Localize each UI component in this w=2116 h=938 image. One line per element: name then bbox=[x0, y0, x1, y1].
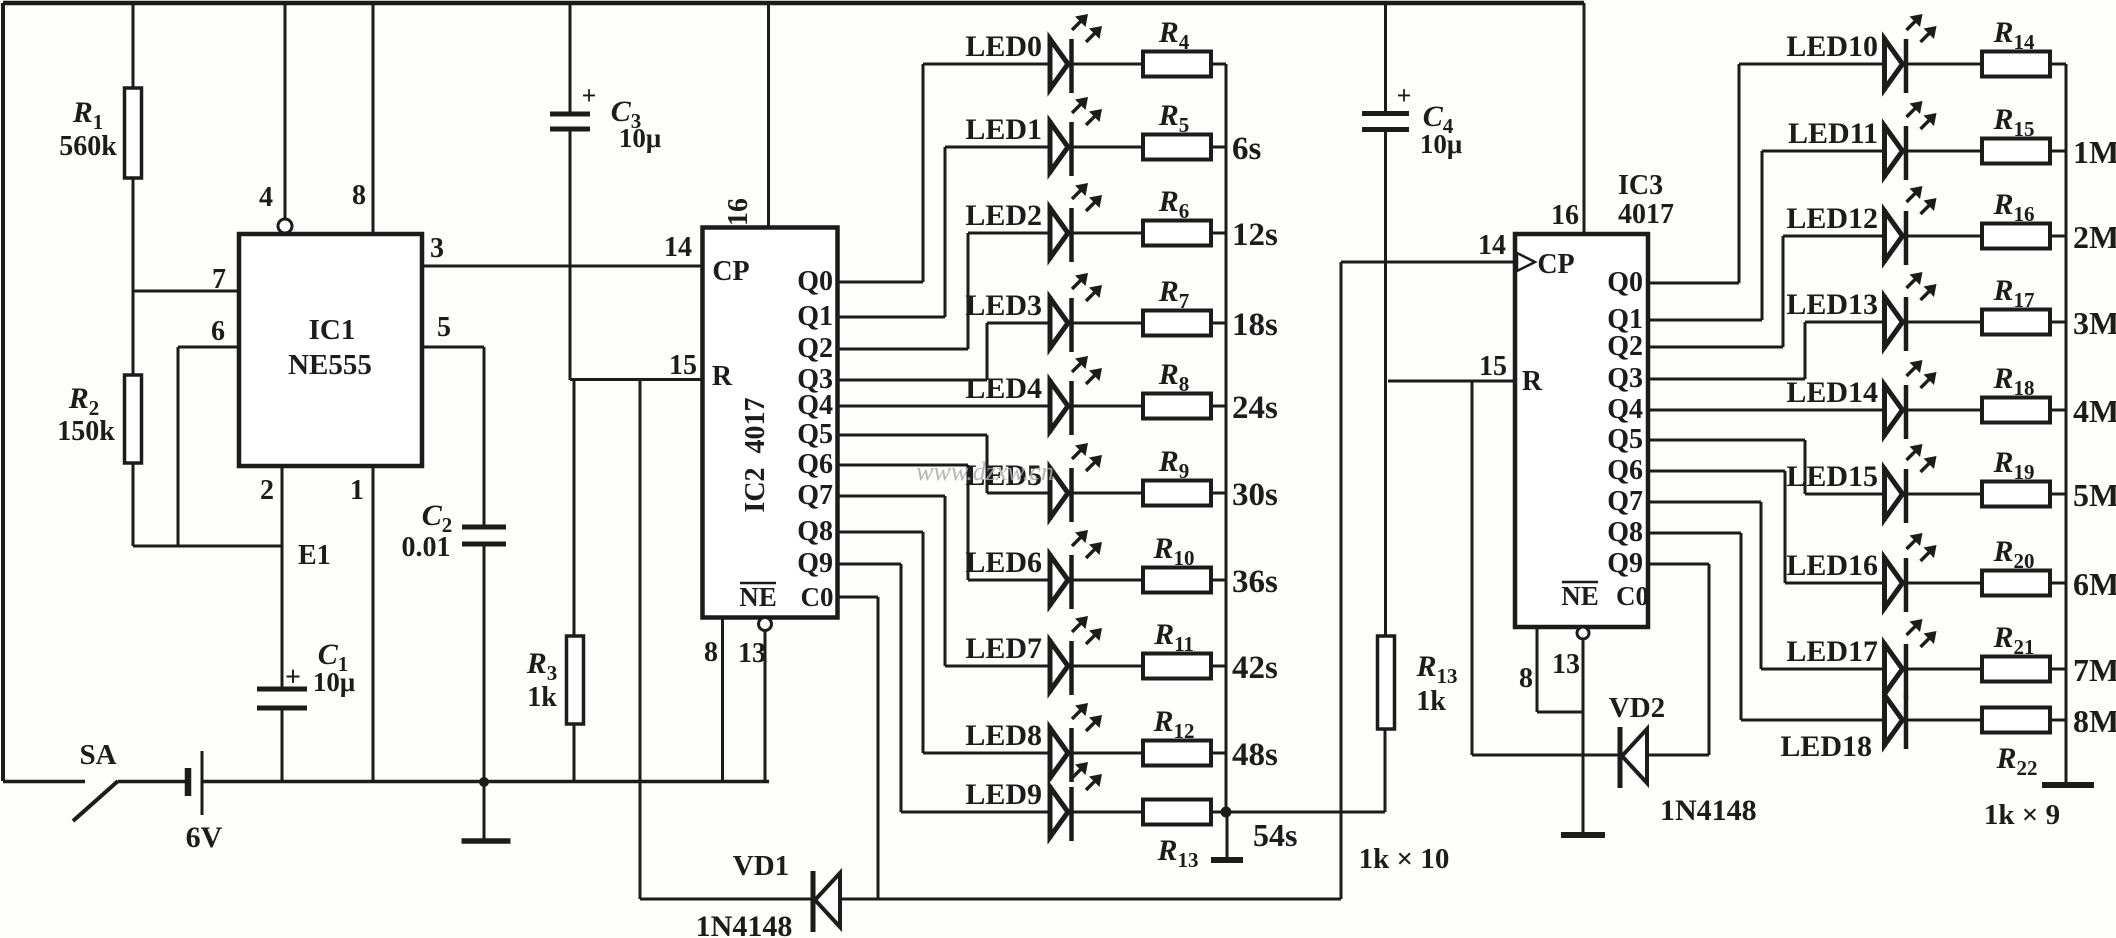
pin 1 of IC1 bbox=[372, 466, 375, 781]
LED3 bbox=[1048, 296, 1053, 350]
wire Q3 of IC2 to LED3 bbox=[838, 379, 988, 382]
svg-text:C0: C0 bbox=[801, 582, 834, 612]
pin 15 R of IC3 bbox=[1388, 380, 1515, 383]
svg-text:13: 13 bbox=[1552, 649, 1580, 680]
svg-text:6s: 6s bbox=[1232, 131, 1262, 167]
resistor R13b 1k bbox=[1378, 636, 1395, 729]
LED1 bbox=[1048, 120, 1053, 174]
capacitor C1 10u polarized bbox=[257, 687, 307, 692]
wire R17 to bus bbox=[2050, 321, 2066, 324]
resistor R9 bbox=[1143, 481, 1211, 506]
resistor R10 bbox=[1143, 568, 1211, 593]
LED11 bbox=[1882, 124, 1887, 178]
svg-text:6V: 6V bbox=[186, 821, 223, 854]
capacitor C2 0.01 bbox=[462, 525, 506, 530]
svg-text:54s: 54s bbox=[1253, 817, 1297, 853]
svg-text:SA: SA bbox=[79, 739, 116, 771]
resistor R3 1k bbox=[567, 636, 584, 724]
pin 8 of IC2 bbox=[721, 618, 724, 782]
svg-text:C0: C0 bbox=[1616, 581, 1649, 611]
LED16 bbox=[1882, 556, 1887, 610]
wire LED12 to R16 bbox=[1906, 235, 1982, 238]
svg-text:8: 8 bbox=[1519, 663, 1533, 694]
wire VD2 to Q9 of IC3 bbox=[1647, 754, 1709, 757]
LED5 bbox=[1048, 466, 1053, 520]
pin 13 of IC2 bbox=[764, 630, 767, 781]
wire IC3 R node down to VD2 bbox=[1471, 381, 1474, 755]
counter U3 IC3 4017 box bbox=[1515, 234, 1648, 627]
svg-text:14: 14 bbox=[1478, 230, 1506, 261]
svg-text:LED4: LED4 bbox=[965, 372, 1042, 405]
wire R6 to bus bbox=[1211, 232, 1226, 235]
svg-text:7: 7 bbox=[212, 264, 226, 295]
wire LED13 to R17 bbox=[1906, 321, 1982, 324]
svg-text:8: 8 bbox=[352, 180, 366, 211]
svg-text:VD1: VD1 bbox=[733, 850, 789, 882]
diode VD1 1N4148 bbox=[811, 871, 816, 932]
svg-text:15: 15 bbox=[669, 350, 697, 381]
svg-text:2M: 2M bbox=[2073, 219, 2116, 255]
resistor R11 bbox=[1143, 654, 1211, 679]
wire R9 to bus bbox=[1211, 492, 1226, 495]
LED7 bbox=[1048, 639, 1053, 693]
pin 13 circle of IC3 bbox=[1577, 627, 1589, 639]
svg-text:1M: 1M bbox=[2073, 134, 2116, 170]
svg-text:LED10: LED10 bbox=[1786, 30, 1878, 63]
LED8 bbox=[1048, 726, 1053, 780]
wire LED14 to R18 bbox=[1906, 409, 1982, 412]
resistor R21 bbox=[1982, 657, 2050, 682]
svg-text:0.01: 0.01 bbox=[402, 532, 451, 563]
resistor R14 bbox=[1982, 52, 2050, 77]
wire bottom ground rail bbox=[202, 780, 769, 784]
svg-text:8M: 8M bbox=[2073, 703, 2116, 739]
LED6 bbox=[1048, 553, 1053, 607]
wire R15 to bus bbox=[2050, 150, 2066, 153]
wire LED5 to R9 bbox=[1072, 492, 1144, 495]
svg-text:3M: 3M bbox=[2073, 305, 2116, 341]
LED15 bbox=[1882, 467, 1887, 521]
svg-text:Q7: Q7 bbox=[1607, 486, 1643, 517]
svg-text:Q3: Q3 bbox=[1607, 363, 1643, 394]
wire Q0 of IC2 to LED0 bbox=[838, 281, 924, 284]
svg-text:4M: 4M bbox=[2073, 393, 2116, 429]
svg-text:LED13: LED13 bbox=[1786, 288, 1878, 321]
switch SA bbox=[3, 780, 85, 784]
svg-text:1k × 10: 1k × 10 bbox=[1359, 843, 1450, 875]
wire Q7 of IC3 to LED17 bbox=[1648, 501, 1761, 504]
pin 13 circle of IC2 bbox=[759, 618, 772, 631]
resistor R8 bbox=[1143, 394, 1211, 419]
wire LED16 to R20 bbox=[1906, 582, 1982, 585]
wire R1 to R2 / node pin7 bbox=[132, 178, 135, 375]
svg-text:Q0: Q0 bbox=[797, 266, 833, 297]
pin 15 R of IC2 bbox=[570, 378, 702, 381]
svg-text:42s: 42s bbox=[1232, 650, 1278, 686]
svg-text:R: R bbox=[712, 361, 733, 392]
wire R14 to bus bbox=[2050, 63, 2066, 66]
resistor R6 bbox=[1143, 221, 1211, 246]
wire LED4 to R8 bbox=[1072, 405, 1144, 408]
resistor R22 bbox=[1982, 708, 2050, 733]
svg-text:Q1: Q1 bbox=[797, 301, 833, 332]
resistor R7 bbox=[1143, 311, 1211, 336]
svg-text:5M: 5M bbox=[2073, 477, 2116, 513]
wire Q2 of IC3 to LED12 bbox=[1648, 346, 1783, 349]
svg-text:NE: NE bbox=[739, 582, 777, 612]
diode VD2 1N4148 bbox=[1618, 727, 1623, 788]
wire LED7 to R11 bbox=[1072, 665, 1144, 668]
resistor R18 bbox=[1982, 398, 2050, 423]
wire R5 to bus bbox=[1211, 146, 1226, 149]
wire Q6 of IC3 to LED16 bbox=[1648, 470, 1785, 473]
wire Q8 of IC3 to LED18 bbox=[1648, 532, 1741, 535]
resistor R4 bbox=[1143, 52, 1211, 77]
svg-text:www.dzxw.cn: www.dzxw.cn bbox=[916, 457, 1054, 486]
ground symbol below 54s node bbox=[1226, 812, 1229, 858]
svg-text:30s: 30s bbox=[1232, 477, 1278, 513]
svg-text:NE555: NE555 bbox=[288, 349, 372, 381]
wire LED1 to R5 bbox=[1072, 146, 1144, 149]
pin 14 CP of IC3 bbox=[1341, 261, 1515, 264]
svg-text:Q2: Q2 bbox=[797, 333, 833, 364]
wire Q1 of IC3 to LED11 bbox=[1648, 319, 1762, 322]
wire Q2 of IC2 to LED2 bbox=[838, 348, 969, 351]
svg-text:LED7: LED7 bbox=[965, 632, 1042, 665]
wire LED18 to R22 bbox=[1906, 719, 1982, 722]
svg-text:Q5: Q5 bbox=[1607, 424, 1643, 455]
svg-text:1k: 1k bbox=[1416, 686, 1446, 717]
pin 6 of IC1 bbox=[178, 346, 239, 349]
svg-text:Q7: Q7 bbox=[797, 480, 833, 511]
svg-text:LED3: LED3 bbox=[965, 289, 1042, 322]
resistor R5 bbox=[1143, 135, 1211, 160]
wire LED8 to R12 bbox=[1072, 752, 1144, 755]
svg-text:1N4148: 1N4148 bbox=[696, 910, 793, 938]
wire Q0 of IC3 to LED10 bbox=[1648, 282, 1739, 285]
svg-text:6: 6 bbox=[211, 316, 225, 347]
node E1 wire bbox=[133, 545, 282, 548]
svg-text:1N4148: 1N4148 bbox=[1660, 794, 1757, 827]
wire LED10 to R14 bbox=[1906, 63, 1982, 66]
wire Q1 of IC2 to LED1 bbox=[838, 316, 946, 319]
svg-text:IC2 4017: IC2 4017 bbox=[740, 397, 771, 512]
wire R4 to bus bbox=[1211, 63, 1226, 66]
svg-text:16: 16 bbox=[723, 198, 754, 226]
battery E 6V bbox=[185, 768, 192, 796]
counter U2 IC2 4017 box bbox=[703, 228, 838, 618]
wire VD1 to IC3 CP bbox=[840, 898, 1341, 901]
svg-text:1: 1 bbox=[350, 475, 364, 506]
svg-text:+: + bbox=[1397, 81, 1412, 110]
svg-text:48s: 48s bbox=[1232, 737, 1278, 773]
LED14 bbox=[1882, 383, 1887, 437]
wire R7 to bus bbox=[1211, 322, 1226, 325]
resistor R2 150k bbox=[125, 375, 142, 463]
pin 16 of IC2 bbox=[767, 3, 770, 228]
svg-text:Q2: Q2 bbox=[1607, 331, 1643, 362]
capacitor C3 10u bbox=[569, 3, 572, 114]
svg-text:LED14: LED14 bbox=[1786, 376, 1878, 409]
svg-text:3: 3 bbox=[430, 233, 444, 264]
svg-text:16: 16 bbox=[1551, 200, 1579, 231]
LED12 bbox=[1882, 209, 1887, 263]
svg-text:4: 4 bbox=[259, 182, 273, 213]
svg-text:NE: NE bbox=[1561, 581, 1599, 611]
resistor R1 560k bbox=[125, 88, 142, 178]
svg-text:6M: 6M bbox=[2073, 566, 2116, 602]
LED2 bbox=[1048, 206, 1053, 260]
svg-text:LED15: LED15 bbox=[1786, 460, 1878, 493]
svg-text:Q6: Q6 bbox=[1607, 455, 1643, 486]
resistor R19 bbox=[1982, 482, 2050, 507]
wire top V+ rail bbox=[3, 1, 1584, 6]
LED9 bbox=[1048, 785, 1053, 839]
wire R12 to bus bbox=[1211, 752, 1226, 755]
svg-text:LED17: LED17 bbox=[1786, 635, 1878, 668]
LED17 bbox=[1882, 642, 1887, 696]
ground symbol below right bus bbox=[2042, 782, 2094, 788]
pin 13 of IC3 bbox=[1582, 639, 1585, 833]
wire C4 node down to R13b bbox=[1384, 381, 1387, 636]
wire C3 to reset node bbox=[569, 129, 572, 380]
pin C0 wire of IC2 to VD1 line bbox=[838, 596, 879, 599]
wire Q4 of IC2 to LED4 bbox=[838, 405, 1051, 408]
wire from top rail to R1 bbox=[132, 3, 135, 88]
wire R2 bottom to E1 node bbox=[132, 463, 135, 546]
svg-text:10μ: 10μ bbox=[313, 667, 355, 697]
wire R16 to bus bbox=[2050, 235, 2066, 238]
svg-text:VD2: VD2 bbox=[1609, 692, 1665, 724]
svg-text:Q0: Q0 bbox=[1607, 267, 1643, 298]
LED0 bbox=[1048, 37, 1053, 91]
svg-text:36s: 36s bbox=[1232, 564, 1278, 600]
svg-text:R: R bbox=[1522, 366, 1543, 397]
wire R19 to bus bbox=[2050, 493, 2066, 496]
svg-text:12s: 12s bbox=[1232, 217, 1278, 253]
svg-text:150k: 150k bbox=[57, 416, 115, 447]
svg-text:Q4: Q4 bbox=[1607, 394, 1643, 425]
svg-text:10μ: 10μ bbox=[619, 123, 661, 153]
svg-text:560k: 560k bbox=[59, 131, 117, 162]
wire Q7 of IC2 to LED7 bbox=[838, 495, 946, 498]
wire Q6 of IC2 to LED6 bbox=[838, 464, 969, 467]
wire IC2 R node down to VD1 bbox=[639, 380, 642, 900]
svg-text:15: 15 bbox=[1479, 351, 1507, 382]
wire 54s node to R13b bbox=[1226, 811, 1385, 814]
capacitor C4 10u bbox=[1384, 3, 1387, 114]
svg-text:Q8: Q8 bbox=[797, 516, 833, 547]
wire R8 to bus bbox=[1211, 405, 1226, 408]
svg-text:IC3: IC3 bbox=[1618, 170, 1663, 201]
ground symbol below C2 bbox=[483, 782, 486, 840]
wire R13 to bus bbox=[1211, 811, 1226, 814]
wire R20 to bus bbox=[2050, 582, 2066, 585]
wire R10 to bus bbox=[1211, 579, 1226, 582]
svg-text:+: + bbox=[285, 662, 301, 693]
resistor R17 bbox=[1982, 310, 2050, 335]
svg-text:Q8: Q8 bbox=[1607, 517, 1643, 548]
svg-text:Q6: Q6 bbox=[797, 449, 833, 480]
wire LED0 to R4 bbox=[1072, 63, 1144, 66]
wire R21 to bus bbox=[2050, 668, 2066, 671]
svg-text:CP: CP bbox=[1537, 249, 1574, 280]
svg-text:LED12: LED12 bbox=[1786, 202, 1878, 235]
svg-text:1k: 1k bbox=[527, 682, 557, 713]
ground symbol below IC3 bbox=[1561, 832, 1605, 838]
svg-text:1k × 9: 1k × 9 bbox=[1984, 799, 2060, 831]
svg-text:4017: 4017 bbox=[1618, 199, 1674, 230]
wire Q4 of IC3 to LED14 bbox=[1648, 409, 1885, 412]
LED10 bbox=[1882, 37, 1887, 91]
svg-text:2: 2 bbox=[260, 475, 274, 506]
pin 3 of IC1 wire to IC2 CP bbox=[422, 265, 702, 268]
op-amp U1 IC1 NE555 box bbox=[239, 234, 422, 466]
svg-text:LED11: LED11 bbox=[1788, 117, 1878, 150]
resistor R12 bbox=[1143, 741, 1211, 766]
wire LED17 to R21 bbox=[1906, 668, 1982, 671]
wire LED15 to R19 bbox=[1906, 493, 1982, 496]
wire LED2 to R6 bbox=[1072, 232, 1144, 235]
svg-text:5: 5 bbox=[437, 312, 451, 343]
svg-text:LED16: LED16 bbox=[1786, 549, 1878, 582]
junction node 54s bbox=[1221, 807, 1232, 818]
LED18 bbox=[1882, 693, 1887, 747]
svg-text:Q5: Q5 bbox=[797, 419, 833, 450]
svg-text:14: 14 bbox=[664, 232, 692, 263]
wire LED11 to R15 bbox=[1906, 150, 1982, 153]
junction node at C2/ground bbox=[479, 777, 489, 787]
pin 4 of IC1 with circle bbox=[284, 3, 287, 219]
wire Q9 of IC2 to LED9 bbox=[838, 563, 902, 566]
wire LED3 to R7 bbox=[1072, 322, 1144, 325]
wire right resistor bus bbox=[2065, 64, 2068, 783]
wire Q8 of IC2 to LED8 bbox=[838, 531, 924, 534]
wire R18 to bus bbox=[2050, 409, 2066, 412]
pin 8 of IC3 bbox=[1536, 627, 1539, 712]
pin 8 of IC1 bbox=[372, 3, 375, 234]
resistor R13 bbox=[1143, 800, 1211, 825]
svg-text:LED2: LED2 bbox=[965, 199, 1042, 232]
svg-text:CP: CP bbox=[712, 256, 749, 287]
svg-text:Q4: Q4 bbox=[797, 390, 833, 421]
svg-text:7M: 7M bbox=[2073, 652, 2116, 688]
svg-text:LED8: LED8 bbox=[965, 719, 1042, 752]
svg-text:18s: 18s bbox=[1232, 307, 1278, 343]
svg-text:LED9: LED9 bbox=[965, 778, 1042, 811]
svg-text:LED18: LED18 bbox=[1780, 730, 1872, 763]
wire R22 to bus bbox=[2050, 719, 2066, 722]
wire LED9 to R13 bbox=[1072, 811, 1144, 814]
svg-text:E1: E1 bbox=[298, 540, 331, 571]
wire reset node down to R3 bbox=[573, 380, 576, 636]
svg-text:13: 13 bbox=[738, 638, 766, 669]
wire LED6 to R10 bbox=[1072, 579, 1144, 582]
wire Q3 of IC3 to LED13 bbox=[1648, 378, 1805, 381]
wire left resistor bus bbox=[1225, 64, 1228, 812]
LED13 bbox=[1882, 295, 1887, 349]
pin 5 of IC1 bbox=[422, 346, 484, 349]
resistor R15 bbox=[1982, 139, 2050, 164]
pin 16 of IC3 bbox=[1583, 3, 1586, 234]
svg-text:LED1: LED1 bbox=[965, 113, 1042, 146]
svg-text:LED0: LED0 bbox=[965, 30, 1042, 63]
svg-text:IC1: IC1 bbox=[309, 314, 356, 346]
resistor R16 bbox=[1982, 224, 2050, 249]
LED4 bbox=[1048, 379, 1053, 433]
svg-text:24s: 24s bbox=[1232, 390, 1278, 426]
wire Q5 of IC2 to LED5 bbox=[838, 434, 988, 437]
pin 2 of IC1 bbox=[281, 466, 284, 689]
pin 7 of IC1 bbox=[133, 290, 239, 293]
svg-text:Q9: Q9 bbox=[797, 548, 833, 579]
resistor R20 bbox=[1982, 571, 2050, 596]
svg-text:10μ: 10μ bbox=[1420, 129, 1462, 159]
svg-text:8: 8 bbox=[704, 637, 718, 668]
svg-text:LED6: LED6 bbox=[965, 546, 1042, 579]
svg-text:Q9: Q9 bbox=[1607, 548, 1643, 579]
wire left border bbox=[1, 3, 5, 781]
svg-text:+: + bbox=[582, 81, 597, 110]
wire R11 to bus bbox=[1211, 665, 1226, 668]
wire VD1 anode line bbox=[640, 898, 813, 901]
wire Q5 of IC3 to LED15 bbox=[1648, 439, 1805, 442]
